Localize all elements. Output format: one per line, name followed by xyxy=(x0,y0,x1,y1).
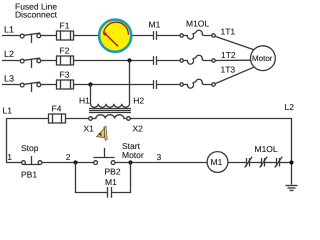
svg-text:M1: M1 xyxy=(105,177,117,187)
wire L2 to disconnect xyxy=(2,60,20,62)
disconnect switch pole 1 xyxy=(20,34,24,38)
svg-text:L2: L2 xyxy=(4,49,14,59)
svg-text:F4: F4 xyxy=(52,103,62,113)
wire contact to overload row2 xyxy=(157,60,181,62)
wire 1T2 to motor xyxy=(215,59,251,61)
wire contact to overload row3 xyxy=(157,84,181,86)
svg-text:Disconnect: Disconnect xyxy=(15,10,58,20)
svg-text:M1OL: M1OL xyxy=(186,19,209,29)
svg-text:L1: L1 xyxy=(4,25,14,35)
svg-text:1T1: 1T1 xyxy=(221,27,236,37)
contact M1 row2 xyxy=(154,56,181,65)
contact M1 seal-in xyxy=(108,187,112,198)
wire F1 to meter xyxy=(74,35,99,37)
transformer T1 core xyxy=(89,109,131,113)
seal-in branch wire xyxy=(76,163,131,193)
right rail L2 xyxy=(291,118,293,185)
svg-text:L1: L1 xyxy=(3,105,13,115)
wire F2 to M1 contact row2 xyxy=(74,60,154,62)
svg-text:H1: H1 xyxy=(79,96,90,106)
wire 1T1 to motor xyxy=(215,36,253,49)
linkage dash pole 1 xyxy=(31,34,33,43)
linkage dash pole 2 xyxy=(31,59,33,68)
wire F3 to M1 contact row3 xyxy=(74,84,154,86)
junction rail right xyxy=(289,160,293,164)
wire between overload contacts xyxy=(250,162,292,164)
junction node 2 xyxy=(73,160,77,164)
svg-text:PB2: PB2 xyxy=(105,166,121,176)
svg-text:1T2: 1T2 xyxy=(221,50,236,60)
contact M1 row3 xyxy=(154,80,181,89)
overload heater M1OL row3 xyxy=(180,79,215,88)
junction node 3 xyxy=(128,160,132,164)
wire L1 to F4 xyxy=(7,118,49,120)
wire 1T3 to motor xyxy=(215,67,253,83)
left rail L1 xyxy=(6,118,8,163)
pushbutton PB1 stop NC xyxy=(22,156,42,165)
svg-text:Motor: Motor xyxy=(252,54,273,63)
disconnect switch pole 3 xyxy=(20,83,24,87)
svg-text:F2: F2 xyxy=(60,46,70,56)
wire pole3 to F3 xyxy=(41,84,57,86)
wire rail to stop xyxy=(7,162,22,164)
fuse F3 xyxy=(57,80,74,89)
contact M1 row1 xyxy=(154,31,181,40)
svg-text:F3: F3 xyxy=(60,70,70,80)
svg-text:L2: L2 xyxy=(285,102,295,112)
svg-text:Motor: Motor xyxy=(122,150,144,160)
wire stop to start xyxy=(42,162,94,164)
coil M1 xyxy=(207,152,228,173)
svg-text:X1: X1 xyxy=(84,123,95,133)
wire meter to M1 contact row1 xyxy=(132,35,153,37)
wire L3 to disconnect xyxy=(2,84,20,86)
svg-text:1T3: 1T3 xyxy=(221,64,236,74)
cursor pointer xyxy=(97,126,108,140)
svg-text:2: 2 xyxy=(66,152,71,162)
transformer T1 secondary xyxy=(89,115,131,121)
ground xyxy=(286,186,298,191)
svg-text:M1: M1 xyxy=(211,157,223,167)
overload contact 2 xyxy=(260,157,268,168)
svg-text:L3: L3 xyxy=(4,74,14,84)
fuse F2 xyxy=(57,56,74,65)
svg-text:Stop: Stop xyxy=(21,143,39,153)
overload heater M1OL row2 xyxy=(180,55,215,64)
motor M xyxy=(251,46,276,71)
svg-text:PB1: PB1 xyxy=(21,169,37,179)
disconnect switch pole 2 xyxy=(20,59,24,63)
wire L1 to disconnect xyxy=(2,35,20,37)
wire X2 to L2 rail xyxy=(130,118,291,120)
wire pole1 to F1 xyxy=(41,35,57,37)
overload heater M1OL row1 xyxy=(180,30,215,39)
overload contact 3 xyxy=(275,157,283,168)
junction on L2 for transformer H2 xyxy=(127,58,131,62)
svg-text:3: 3 xyxy=(157,152,162,162)
linkage dash pole 3 xyxy=(31,83,33,92)
pushbutton PB2 start NO xyxy=(93,148,115,165)
overload contact 1 xyxy=(245,157,253,168)
wire coil to overload contacts xyxy=(228,162,247,164)
meter indicator highlighted xyxy=(99,20,131,52)
fuse F4 xyxy=(49,114,66,123)
wire pole2 to F2 xyxy=(41,60,57,62)
wire start to coil M1 xyxy=(115,162,207,164)
svg-text:M1OL: M1OL xyxy=(255,144,278,154)
svg-text:X2: X2 xyxy=(133,123,144,133)
transformer T1 primary xyxy=(91,61,130,108)
wire contact to overload row1 xyxy=(157,35,181,37)
wire F4 to X1 xyxy=(66,118,89,120)
fuse F1 xyxy=(57,31,74,40)
svg-text:F1: F1 xyxy=(60,21,70,31)
svg-text:M1: M1 xyxy=(149,19,161,29)
junction on L3 for transformer H1 xyxy=(88,82,92,86)
svg-text:H2: H2 xyxy=(133,96,144,106)
svg-text:1: 1 xyxy=(7,152,12,162)
